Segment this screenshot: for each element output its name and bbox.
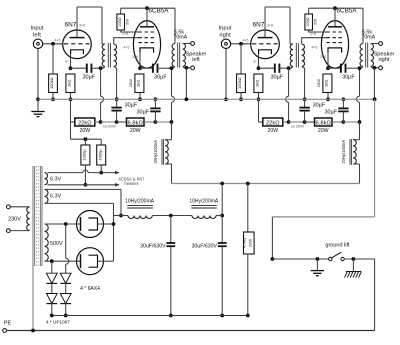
svg-text:100Ω: 100Ω [118, 17, 122, 26]
svg-text:4+5: 4+5 [54, 39, 60, 43]
svg-text:4+5: 4+5 [242, 39, 248, 43]
svg-text:right: right [379, 57, 390, 63]
svg-text:1000µ: 1000µ [97, 149, 102, 161]
svg-text:6N7: 6N7 [253, 22, 265, 29]
svg-text:20W: 20W [267, 128, 278, 134]
svg-text:2W: 2W [124, 19, 129, 25]
svg-text:1kΩ: 1kΩ [136, 80, 141, 87]
svg-text:30uF/630V: 30uF/630V [140, 244, 166, 250]
svg-text:10Hy/200mA: 10Hy/200mA [189, 198, 219, 204]
svg-text:1+8: 1+8 [122, 32, 128, 36]
svg-text:6,8kΩ: 6,8kΩ [316, 121, 332, 127]
svg-text:Input: Input [219, 25, 232, 31]
svg-text:1+8: 1+8 [310, 32, 316, 36]
svg-text:22kΩ: 22kΩ [78, 121, 92, 127]
svg-text:4+5: 4+5 [311, 46, 317, 50]
svg-text:ground lift: ground lift [325, 243, 350, 249]
svg-text:20Hy/100mA: 20Hy/100mA [153, 140, 158, 164]
svg-text:1000µ: 1000µ [82, 149, 87, 161]
svg-text:30µF: 30µF [342, 74, 355, 80]
svg-text:heaters: heaters [125, 181, 139, 186]
svg-text:ca 300V: ca 300V [291, 125, 305, 129]
svg-text:6.3V: 6.3V [50, 194, 61, 200]
svg-text:30µF: 30µF [82, 74, 95, 80]
svg-text:4 * 6AX4: 4 * 6AX4 [80, 286, 100, 292]
svg-text:30µF: 30µF [324, 110, 337, 116]
svg-text:70mA: 70mA [173, 35, 187, 41]
svg-text:3+6: 3+6 [132, 55, 138, 59]
svg-text:10Hy/200mA: 10Hy/200mA [125, 198, 155, 204]
svg-text:2W: 2W [312, 19, 317, 25]
svg-text:20W: 20W [79, 128, 90, 134]
svg-text:6.3V: 6.3V [50, 176, 61, 182]
svg-text:30µF: 30µF [313, 102, 326, 108]
svg-text:3+6: 3+6 [267, 23, 273, 27]
svg-text:20Hy/100mA: 20Hy/100mA [341, 140, 346, 164]
svg-text:6,8kΩ: 6,8kΩ [128, 121, 144, 127]
svg-text:100kΩ: 100kΩ [237, 77, 242, 89]
svg-text:100Ω: 100Ω [306, 17, 310, 26]
svg-text:20W: 20W [128, 79, 133, 87]
svg-text:3+6: 3+6 [320, 55, 326, 59]
svg-text:100kΩ: 100kΩ [49, 77, 54, 89]
svg-text:20W: 20W [248, 239, 253, 247]
svg-text:4+5: 4+5 [123, 46, 129, 50]
svg-text:6N7: 6N7 [65, 22, 77, 29]
svg-text:4,7kΩ: 4,7kΩ [242, 238, 247, 249]
svg-text:70mA: 70mA [361, 35, 375, 41]
svg-text:left: left [192, 57, 200, 63]
svg-text:30µF: 30µF [154, 74, 167, 80]
svg-text:right: right [219, 32, 231, 38]
svg-text:PE: PE [4, 321, 12, 327]
svg-text:230V: 230V [8, 217, 21, 223]
svg-text:3+6: 3+6 [79, 23, 85, 27]
svg-text:30uF/630V: 30uF/630V [192, 244, 218, 250]
svg-text:Input: Input [31, 25, 44, 31]
svg-text:20W: 20W [318, 128, 329, 134]
svg-text:8: 8 [66, 60, 68, 64]
svg-text:22kΩ: 22kΩ [266, 121, 280, 127]
svg-text:20W: 20W [130, 128, 141, 134]
svg-text:1kΩ: 1kΩ [67, 80, 72, 87]
svg-text:left: left [33, 32, 41, 38]
svg-text:1kΩ: 1kΩ [255, 80, 260, 87]
svg-text:ca 300V: ca 300V [103, 125, 117, 129]
svg-text:4 * UP1007: 4 * UP1007 [46, 320, 70, 325]
svg-text:500V: 500V [50, 241, 63, 247]
svg-text:30µF: 30µF [136, 110, 149, 116]
svg-text:1kΩ: 1kΩ [324, 80, 329, 87]
svg-text:20W: 20W [316, 79, 321, 87]
svg-text:30µF: 30µF [270, 74, 283, 80]
svg-text:8: 8 [254, 60, 256, 64]
svg-text:30µF: 30µF [125, 102, 138, 108]
